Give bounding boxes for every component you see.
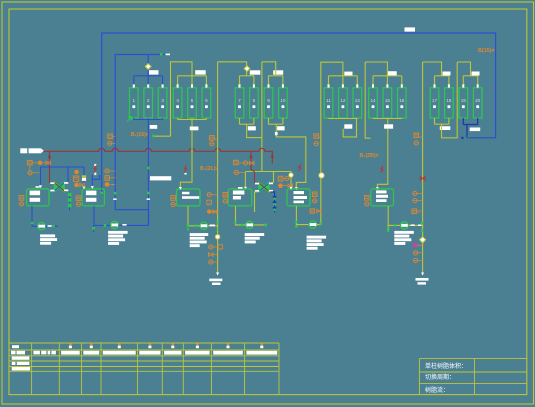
top manifold cells 1-3 <box>134 75 163 77</box>
interlock symbol at T2 inlet <box>94 164 96 166</box>
vessel column 3 <box>158 88 167 118</box>
drain group 17-18 to 19-20 header <box>442 62 458 138</box>
bottom manifold cells 9-10 <box>269 123 283 125</box>
nodes and dashes on verticals <box>114 192 117 195</box>
table col1 row3 <box>12 356 30 359</box>
svg-text:14: 14 <box>370 98 376 103</box>
lightning T5 inlet <box>298 164 301 171</box>
interlock symbol T3 inlet <box>184 166 187 173</box>
wire end white dash <box>166 54 171 56</box>
svg-text:单柱树脂体积：: 单柱树脂体积： <box>425 362 467 370</box>
wire yellow into V2 NE <box>273 172 275 183</box>
equipment tank T3 <box>177 189 201 206</box>
pump P5 <box>309 221 316 228</box>
wire blue supply branch y54 <box>115 55 168 210</box>
tag group 9-10 <box>273 70 283 74</box>
vessel column 16 <box>398 88 407 118</box>
instrument row above T4 <box>234 160 239 165</box>
bottom tag group 4-6 <box>190 127 199 131</box>
inlet arrow cell 5 <box>191 84 193 87</box>
column header mark <box>261 344 263 346</box>
equipment tank T6 <box>371 189 394 206</box>
inlet arrow cell 1 <box>133 84 135 87</box>
bus source tags <box>20 148 27 153</box>
svg-text:3: 3 <box>161 98 164 103</box>
top manifold cells 19-20 <box>463 75 477 77</box>
bottom manifold 19-20 blue <box>463 124 477 126</box>
inlet arrow cell 7 <box>239 84 241 87</box>
vessel column 4 <box>173 88 182 118</box>
T4 outlet pump P4 <box>236 206 268 225</box>
svg-text:4: 4 <box>176 98 179 103</box>
bottom manifold cells 17-18 <box>435 123 449 125</box>
svg-text:16: 16 <box>399 98 405 103</box>
drain group 4-6 <box>191 120 193 127</box>
svg-text:5: 5 <box>191 98 194 103</box>
bottom manifold cells 7-8 <box>240 123 254 125</box>
text block <box>394 231 414 234</box>
node <box>92 227 95 230</box>
inlet arrow cell 20 <box>477 84 479 87</box>
wire blue return header top <box>102 33 496 195</box>
equipment tank T2 <box>82 189 104 206</box>
drain group 14-16 to box6 <box>387 119 389 125</box>
instrument pair upper center line <box>210 136 215 141</box>
vessel column 9 <box>264 88 273 118</box>
drain group 7-8 joins supply line <box>247 124 262 137</box>
text block <box>307 236 327 239</box>
inlet arrow cell 17 <box>434 84 436 87</box>
svg-text:切换周期：: 切换周期： <box>425 373 455 381</box>
cell drain 1-3 vertical <box>147 120 149 226</box>
inlet arrow cell 11 <box>328 84 330 87</box>
instrument cluster on center line low <box>218 245 222 249</box>
bottom tag group 9-10 <box>277 126 285 130</box>
wire T2 feed trap <box>92 175 99 179</box>
inlet arrow cell 18 <box>448 84 450 87</box>
inlet arrow cell 13 <box>356 84 358 87</box>
svg-text:8: 8 <box>253 98 256 103</box>
svg-text:B₂(2B)≠: B₂(2B)≠ <box>360 153 379 159</box>
inlet arrow cell 9 <box>268 84 270 87</box>
svg-text:树脂流：: 树脂流： <box>425 386 449 394</box>
top manifold cells 9-10 <box>269 75 283 77</box>
wire to junction <box>154 135 171 137</box>
inlet arrow cell 3 <box>162 84 164 87</box>
label under arrow <box>416 278 429 281</box>
instrument bubble on center line <box>215 235 220 240</box>
long supply line 9-10 header down <box>261 62 263 172</box>
wire blue out of V1 SE with strainer squares <box>69 191 71 210</box>
T5 outlet pump P5 <box>296 206 320 225</box>
svg-text:×: × <box>112 183 114 187</box>
header group 11-13 <box>321 62 343 224</box>
pump P6 <box>401 222 408 229</box>
vessel column 12 <box>339 88 348 118</box>
text block <box>40 234 55 237</box>
equipment tank T4 <box>228 189 252 206</box>
orange instrument row top-left <box>28 160 33 165</box>
inlet arrow cell 8 <box>253 84 255 87</box>
bottom tag group 14-16 <box>384 124 393 128</box>
inlet arrow cell 6 <box>205 84 207 87</box>
header group 9-10 <box>262 62 276 76</box>
tag group 1-3 <box>149 70 159 74</box>
instrument pair x422 top <box>414 133 419 138</box>
svg-text:13: 13 <box>355 98 361 103</box>
svg-text:1: 1 <box>133 98 136 103</box>
svg-text:B₂(2L)≠: B₂(2L)≠ <box>200 166 219 172</box>
svg-text:15: 15 <box>385 98 391 103</box>
bottom tag group 7-8 <box>248 126 256 130</box>
gauges beside T1 <box>19 196 24 201</box>
text block <box>245 233 265 236</box>
drain group 9-10 to box5 <box>276 124 306 187</box>
svg-text:2: 2 <box>147 98 150 103</box>
wire 4-6 drain to T3 <box>180 130 192 187</box>
bottom tag group 17-18 <box>440 126 451 130</box>
vessel column 14 <box>369 88 378 118</box>
svg-text:18: 18 <box>446 98 452 103</box>
column header mark <box>196 344 198 346</box>
column header mark <box>149 344 151 346</box>
instrument cluster x422 low <box>413 243 417 247</box>
top manifold cells 4-6 <box>178 75 207 77</box>
column header mark <box>69 344 71 346</box>
valve V2 cross-exchange <box>258 182 271 192</box>
vessel column 2 <box>144 88 153 118</box>
white dash at T4 inlet <box>238 187 243 189</box>
pump P3 <box>200 222 207 229</box>
tag group 7-8 <box>250 70 260 74</box>
gauge to T1 inlet <box>28 171 32 175</box>
tag group 4-6 <box>195 70 206 74</box>
lightning T6 inlet <box>381 166 384 173</box>
inlet arrow cell 10 <box>282 84 284 87</box>
inlet arrow cell 16 <box>401 84 403 87</box>
gauges beside T6 <box>365 196 370 201</box>
equipment tank T5 <box>287 189 310 206</box>
drain arrow group1-3 bottom left <box>127 117 132 122</box>
valve V1 cross-exchange <box>53 182 66 192</box>
vessel column 13 <box>353 88 362 118</box>
vessel column 17 <box>430 88 439 118</box>
inlet arrow cell 19 <box>462 84 464 87</box>
white ellipse on 11-13 supply <box>319 173 324 178</box>
bottom manifold cells 14-16 <box>373 118 402 120</box>
branch to T4 inlet <box>244 172 246 187</box>
pump P2 <box>111 221 118 228</box>
vessel column 5 <box>188 88 197 118</box>
wire x101 end <box>100 192 103 195</box>
bottom manifold cells 11-13 <box>329 118 358 120</box>
wire x422 line (17-18 supply) <box>422 62 424 274</box>
header group 14-16 <box>365 62 387 76</box>
svg-text:19: 19 <box>461 98 467 103</box>
tag group 14-16 <box>388 71 397 75</box>
table col1 row4 <box>12 362 16 365</box>
header group 17-18 <box>423 62 442 76</box>
wire blue out of V2 SE flange column <box>271 192 275 213</box>
top manifold cells 7-8 <box>240 75 254 77</box>
red control valve x422 <box>420 176 425 180</box>
svg-text:10: 10 <box>280 98 286 103</box>
instrument pair on 11-13 supply <box>314 134 319 139</box>
wire T2 left feed <box>83 167 85 187</box>
svg-text:B(15)≠: B(15)≠ <box>478 48 494 54</box>
table header marks <box>12 345 19 348</box>
drain loop group 11-13 <box>343 119 356 137</box>
svg-text:7: 7 <box>238 98 241 103</box>
inlet arrow cell 12 <box>342 84 344 87</box>
svg-text:×: × <box>208 201 210 205</box>
wire riser to x115 branch <box>115 210 148 226</box>
gauges beside T2 <box>76 196 81 201</box>
bottom manifold cells 4-6 <box>178 119 207 121</box>
red drop to valve V1 <box>49 151 51 183</box>
equipment tank T1 <box>27 189 50 206</box>
instrument cluster between T1 T2 <box>74 170 78 174</box>
tag on top header <box>405 27 416 31</box>
text block <box>108 231 128 234</box>
gauge above T4 <box>234 170 238 174</box>
gauges beside T5 <box>312 192 317 197</box>
instruments on x115 line top <box>108 134 113 139</box>
vessel column 10 <box>279 88 288 118</box>
svg-text:6: 6 <box>205 98 208 103</box>
gauges beside T3 <box>171 196 176 201</box>
table row2 white band <box>11 351 16 355</box>
instrument cluster x422 mid <box>413 191 417 195</box>
inlet arrow cell 15 <box>386 84 388 87</box>
svg-text:20: 20 <box>475 98 481 103</box>
bottom tag 1-3 <box>150 125 158 129</box>
label under arrow <box>209 279 222 282</box>
vessel column 18 <box>445 88 454 118</box>
vessel column 15 <box>383 88 392 118</box>
svg-text:17: 17 <box>432 98 438 103</box>
svg-text:9: 9 <box>267 98 270 103</box>
vessel column 19 <box>459 88 468 118</box>
pump P4 <box>246 221 253 228</box>
header group 4-6 <box>171 62 193 136</box>
instrument cluster x115 mid <box>105 169 109 173</box>
vessel column 8 <box>250 88 259 118</box>
instrument cluster left of T5 <box>278 176 283 181</box>
wire center process line x217 <box>217 62 219 274</box>
tag group 17-18 <box>443 72 451 76</box>
wire T2 outlet to pump P2 <box>94 206 149 225</box>
instrument cluster center line mid (T3 level) <box>207 193 211 197</box>
wire yellow out of V2 SW <box>255 192 258 212</box>
svg-text:B₁(15)≠: B₁(15)≠ <box>131 132 149 138</box>
gauges beside T4 <box>223 193 228 198</box>
column header mark <box>118 344 120 346</box>
T1 outlet to pump P1 <box>32 206 58 226</box>
pump P1 <box>38 223 45 230</box>
header group 7-8 <box>218 62 247 76</box>
top manifold cells 11-13 <box>329 75 358 77</box>
node green <box>160 53 163 56</box>
wire T1 feed and V1 NE feed <box>41 167 85 186</box>
column header mark <box>90 344 92 346</box>
node green dot <box>466 135 468 137</box>
vessel column 1 <box>130 88 139 118</box>
T6 outlet pump P6 <box>388 206 422 225</box>
bottom manifold cells 1-3 <box>134 119 163 121</box>
revision table grid <box>9 343 279 395</box>
tag group 19-20 <box>472 72 480 76</box>
top manifold cells 14-16 <box>373 75 402 77</box>
vessel column 7 <box>235 88 244 118</box>
table col1 row5 <box>12 367 30 371</box>
red distribution bus <box>43 148 272 163</box>
title block <box>419 359 526 395</box>
instrument bubble on T5 feed <box>289 173 293 177</box>
red drop to valve V2 <box>251 151 255 183</box>
white bar label mid-left <box>150 176 171 180</box>
orange valve at T5 inlet <box>288 184 292 188</box>
inlet arrow cell 2 <box>147 84 149 87</box>
svg-text:11: 11 <box>326 98 331 103</box>
header group 19-20 <box>457 62 470 76</box>
vessel column 6 <box>202 88 211 118</box>
tag group 11-13 <box>344 72 352 76</box>
instrument bubble x422 <box>420 237 426 243</box>
inlet arrow cell 14 <box>372 84 374 87</box>
column header mark <box>172 344 174 346</box>
top manifold cells 17-18 <box>435 75 449 77</box>
text block <box>190 233 209 236</box>
bottom tag group 11-13 <box>344 124 352 128</box>
riser group 1-3 with instrument bubble <box>147 55 149 76</box>
bottom tag group 19-20 <box>470 128 481 132</box>
vessel column 20 <box>473 88 482 118</box>
green nodes x422 <box>421 222 424 225</box>
vessel column 11 <box>324 88 333 118</box>
svg-text:12: 12 <box>340 98 346 103</box>
inlet arrow cell 4 <box>177 84 179 87</box>
T3 outlet pump P3 <box>188 206 218 226</box>
instruments below-right T5 <box>310 209 314 213</box>
column header mark <box>227 344 229 346</box>
